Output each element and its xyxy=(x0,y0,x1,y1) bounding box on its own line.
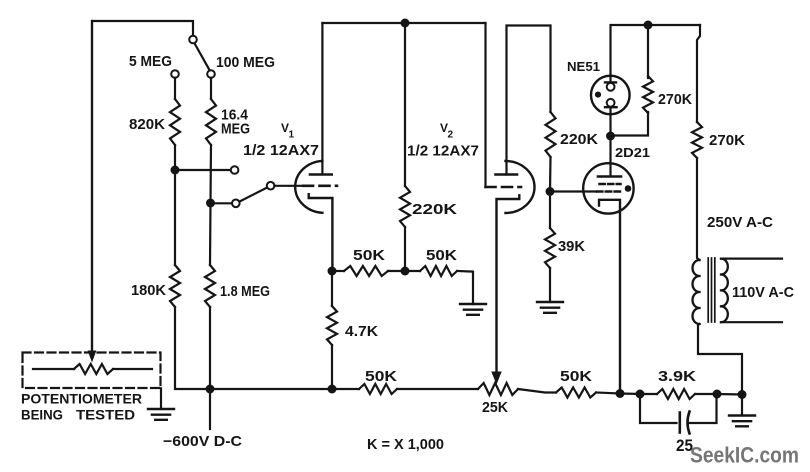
wire top-right bus xyxy=(611,25,701,82)
svg-text:1.8 MEG: 1.8 MEG xyxy=(220,283,270,300)
wire xyxy=(697,25,700,122)
resistor 1.8 MEG xyxy=(205,265,215,307)
label 2D21 xyxy=(615,145,650,160)
wire xyxy=(620,392,640,395)
wire xyxy=(404,227,406,271)
label 100 MEG xyxy=(216,54,275,71)
label 820K xyxy=(129,116,165,133)
node junction xyxy=(171,166,180,175)
V1 cathode xyxy=(309,194,333,271)
V1 plate xyxy=(310,173,332,176)
switch S2 blade xyxy=(239,188,267,202)
node -600V junction xyxy=(206,385,215,394)
svg-text:270K: 270K xyxy=(709,132,745,149)
svg-text:2D21: 2D21 xyxy=(615,145,650,160)
node junction xyxy=(616,389,625,398)
wire xyxy=(175,307,210,389)
label 25K xyxy=(482,399,508,416)
transformer T1 core xyxy=(708,258,715,322)
ground xyxy=(537,302,563,313)
wire xyxy=(209,203,212,265)
wire xyxy=(174,78,176,99)
tube V1 1/2 12AX7 envelope xyxy=(295,161,322,213)
potentiometer 25K xyxy=(478,383,518,395)
label 1.8 MEG xyxy=(220,283,270,300)
wire top bus xyxy=(322,22,485,24)
terminal -600V D-C xyxy=(209,389,211,429)
ground xyxy=(460,304,486,315)
node junction xyxy=(606,132,615,141)
svg-text:5 MEG: 5 MEG xyxy=(129,53,172,70)
label 180K xyxy=(131,282,166,299)
resistor 220K (V1 plate load) xyxy=(400,186,410,227)
resistor 50K xyxy=(556,388,596,398)
label 4.7K xyxy=(345,323,378,340)
wire xyxy=(209,307,211,389)
wire 2D21 plate lead xyxy=(609,136,611,176)
label 220K xyxy=(560,131,598,148)
node junction xyxy=(546,187,555,196)
label V2 xyxy=(440,121,454,141)
resistor 50K xyxy=(332,384,397,394)
svg-text:110V A-C: 110V A-C xyxy=(732,284,794,301)
svg-text:180K: 180K xyxy=(131,282,166,299)
watermark SeekIC.com xyxy=(690,443,799,468)
V2 cathode xyxy=(497,195,520,371)
svg-text:−600V D-C: −600V D-C xyxy=(163,433,242,450)
2D21 plate xyxy=(598,175,621,178)
svg-text:SeekIC.com: SeekIC.com xyxy=(690,443,799,468)
resistor 50K xyxy=(405,266,457,276)
label 50K xyxy=(353,247,385,264)
svg-text:1: 1 xyxy=(289,130,295,141)
wiper arrow xyxy=(491,372,501,385)
svg-text:220K: 220K xyxy=(412,201,457,218)
potentiometer under test enclosure (dashed box) xyxy=(23,353,161,389)
switch S1 blade xyxy=(195,43,210,70)
wire 250V A-C feed xyxy=(697,158,700,260)
wire xyxy=(388,270,405,272)
wire xyxy=(211,202,233,204)
resistor 16.4 MEG xyxy=(206,99,216,145)
capacitor 25 xyxy=(680,412,690,434)
svg-text:270K: 270K xyxy=(658,91,692,108)
node junction xyxy=(328,385,337,394)
wire V1 plate lead xyxy=(321,23,323,173)
label NE51 xyxy=(567,59,600,74)
svg-text:250V A-C: 250V A-C xyxy=(707,214,773,231)
tube 2D21 envelope xyxy=(583,163,633,213)
resistor 180K xyxy=(170,265,180,307)
node junction xyxy=(713,390,722,399)
wire xyxy=(609,107,611,136)
2D21 cathode xyxy=(599,200,620,394)
resistor 270K xyxy=(692,122,702,158)
transformer T1 primary winding xyxy=(693,260,700,324)
terminal contact xyxy=(232,200,240,208)
node junction xyxy=(636,390,645,399)
label 39K xyxy=(558,238,585,255)
label 5 MEG xyxy=(129,53,172,70)
node junction xyxy=(738,390,747,399)
node junction xyxy=(206,199,215,208)
label 250V A-C xyxy=(707,214,773,231)
wire V2 plate lead xyxy=(507,26,551,175)
svg-text:820K: 820K xyxy=(129,116,165,133)
terminal contact xyxy=(231,166,239,174)
tube V2 1/2 12AX7 envelope xyxy=(506,161,535,213)
wire xyxy=(518,389,556,393)
label 16.4 MEG xyxy=(221,107,250,138)
label 25 xyxy=(676,436,693,455)
wire top-left bus xyxy=(92,21,193,351)
label 270K xyxy=(709,132,745,149)
wire xyxy=(331,345,333,389)
label POTENTIOMETER BEING TESTED xyxy=(21,391,142,423)
wire bottom bus xyxy=(210,388,332,390)
NE51 electrode (top) xyxy=(605,82,616,90)
wire xyxy=(397,388,478,390)
wire xyxy=(404,23,406,186)
resistor 39K xyxy=(545,228,555,268)
wire xyxy=(717,393,742,396)
wire xyxy=(690,394,717,423)
svg-text:TESTED: TESTED xyxy=(76,407,135,423)
resistor 220K xyxy=(546,112,556,157)
wire xyxy=(274,185,302,187)
svg-text:50K: 50K xyxy=(365,368,397,385)
wire xyxy=(160,388,162,409)
wire xyxy=(174,145,176,265)
svg-text:1/2 12AX7: 1/2 12AX7 xyxy=(407,143,479,160)
wire xyxy=(647,25,649,78)
svg-text:BEING: BEING xyxy=(21,407,63,423)
svg-text:50K: 50K xyxy=(560,368,592,385)
wiper arrow xyxy=(88,21,97,363)
wire 2D21 grid lead xyxy=(550,190,596,192)
resistor 820K xyxy=(170,99,180,145)
NE51 electrode (bottom) xyxy=(605,99,617,107)
svg-text:4.7K: 4.7K xyxy=(345,323,378,340)
switch S1 pole contact xyxy=(189,36,197,44)
svg-text:POTENTIOMETER: POTENTIOMETER xyxy=(21,391,142,407)
label 1/2 12AX7 xyxy=(407,143,479,160)
node junction xyxy=(644,21,653,30)
wire xyxy=(698,324,742,395)
resistor 270K xyxy=(643,76,653,113)
wire xyxy=(209,145,212,203)
2D21 grid (dashed rows) xyxy=(597,184,622,192)
ground xyxy=(729,416,755,427)
resistor 4.7K xyxy=(327,306,337,345)
label 110V A-C xyxy=(732,284,794,301)
wire xyxy=(611,112,649,136)
wire xyxy=(549,268,551,302)
label 50K xyxy=(426,247,457,264)
terminal contact xyxy=(267,182,275,190)
label 220K xyxy=(412,201,457,218)
label 50K xyxy=(560,368,592,385)
svg-text:220K: 220K xyxy=(560,131,598,148)
svg-text:50K: 50K xyxy=(353,247,385,264)
svg-text:25K: 25K xyxy=(482,399,508,416)
node junction xyxy=(328,267,337,276)
label 270K xyxy=(658,91,692,108)
V2 plate xyxy=(496,173,518,176)
transformer T1 secondary winding xyxy=(721,259,728,323)
wire xyxy=(210,78,212,99)
svg-text:3.9K: 3.9K xyxy=(658,368,696,385)
label -600V D-C xyxy=(163,433,242,450)
switch S1 throw contact (100 MEG side) xyxy=(207,70,215,78)
V1 grid (dashed) xyxy=(303,185,337,188)
svg-text:MEG: MEG xyxy=(221,121,250,138)
svg-text:50K: 50K xyxy=(426,247,457,264)
svg-text:1/2 12AX7: 1/2 12AX7 xyxy=(243,142,319,159)
resistor 3.9K xyxy=(640,389,717,399)
wire xyxy=(549,192,551,229)
label 1/2 12AX7 xyxy=(243,142,319,159)
wire xyxy=(741,395,743,416)
wire xyxy=(175,169,231,171)
label K = X 1,000 xyxy=(367,436,444,453)
wire xyxy=(457,271,473,304)
svg-text:NE51: NE51 xyxy=(567,59,600,74)
wire xyxy=(640,394,677,423)
wire xyxy=(331,271,333,306)
label 50K xyxy=(365,368,397,385)
wire 110V A-C terminals xyxy=(721,259,782,323)
wire xyxy=(549,157,552,192)
ground xyxy=(148,409,174,420)
resistor 50K xyxy=(332,266,388,276)
svg-text:2: 2 xyxy=(448,130,454,141)
node junction xyxy=(401,267,410,276)
svg-text:39K: 39K xyxy=(558,238,585,255)
label V1 xyxy=(281,121,295,141)
label 3.9K xyxy=(658,368,696,385)
potentiometer element xyxy=(33,364,152,374)
V2 grid (dashed) xyxy=(486,186,522,189)
lamp NE51 envelope xyxy=(591,76,630,115)
svg-text:100 MEG: 100 MEG xyxy=(216,54,275,71)
node junction top bus xyxy=(401,19,410,28)
svg-text:K = X 1,000: K = X 1,000 xyxy=(367,436,444,453)
terminal 5 MEG xyxy=(171,70,179,78)
wire V2 grid lead xyxy=(484,23,486,187)
2D21 starter dot xyxy=(625,185,632,192)
NE51 gas dot xyxy=(595,92,601,98)
wire xyxy=(596,393,620,394)
